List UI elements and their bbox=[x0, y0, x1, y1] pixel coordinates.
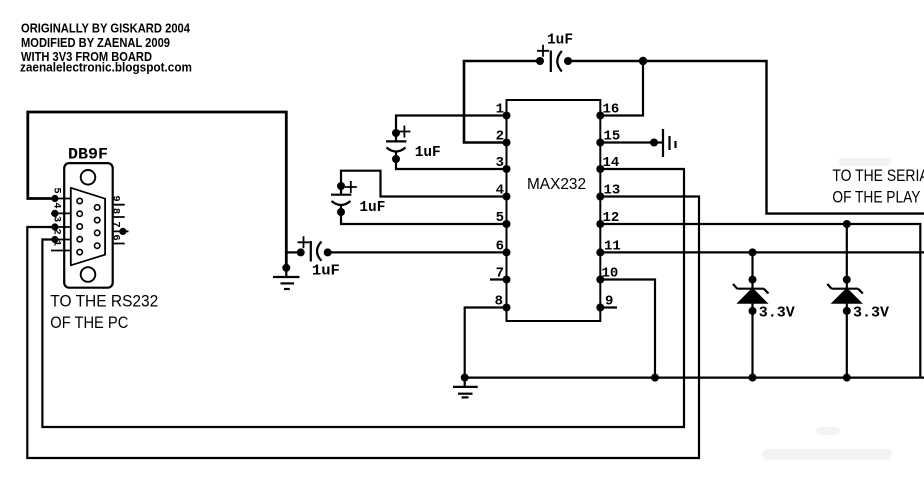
wire pin15 to ground bbox=[600, 141, 663, 143]
node ground pin10 bbox=[651, 374, 659, 382]
ground GND1 bbox=[273, 268, 300, 289]
capacitor C3 1uF (vertical) bbox=[331, 181, 357, 216]
wire C3 top to pin4 bbox=[341, 171, 507, 197]
svg-text:5: 5 bbox=[496, 210, 504, 226]
zener diode D2 3.3V bbox=[827, 220, 863, 378]
wire C4 to pin6 bbox=[328, 251, 507, 253]
pin dots right 16-9 bbox=[596, 112, 604, 312]
svg-text:TO THE RS232: TO THE RS232 bbox=[50, 292, 158, 311]
svg-text:zaenalelectronic.blogspot.com: zaenalelectronic.blogspot.com bbox=[20, 61, 192, 75]
capacitor C2 1uF (vertical) bbox=[386, 126, 410, 164]
svg-text:4: 4 bbox=[51, 202, 63, 208]
wire pin10 down to ground rail bbox=[600, 280, 655, 378]
pin digits DB9 left bbox=[51, 187, 63, 246]
svg-text:3.3V: 3.3V bbox=[853, 305, 889, 322]
svg-text:2: 2 bbox=[496, 129, 504, 145]
wire pin11 right bbox=[600, 251, 924, 253]
svg-text:3: 3 bbox=[51, 216, 63, 222]
svg-text:ORIGINALLY BY GISKARD 2004: ORIGINALLY BY GISKARD 2004 bbox=[21, 22, 190, 36]
svg-text:3: 3 bbox=[496, 155, 504, 171]
pin number labels bbox=[495, 102, 621, 310]
svg-text:5: 5 bbox=[51, 187, 63, 193]
svg-text:2: 2 bbox=[51, 228, 63, 234]
wire pin1 to C2 top bbox=[396, 116, 507, 134]
wire pin13 to DB9 pin3 bbox=[27, 197, 699, 459]
svg-text:1: 1 bbox=[51, 240, 63, 246]
connector J1 DB9F bbox=[51, 163, 129, 288]
svg-text:1uF: 1uF bbox=[547, 32, 573, 49]
wire C3 bottom to pin5 bbox=[341, 212, 507, 224]
capacitor C4 1uF (horizontal, to pin6) bbox=[286, 236, 331, 261]
node pin15 bbox=[650, 139, 658, 147]
svg-text:DB9F: DB9F bbox=[68, 146, 108, 164]
node D1 ground bbox=[749, 374, 757, 382]
svg-text:6: 6 bbox=[109, 234, 121, 240]
node top supply bbox=[639, 57, 647, 65]
label TO THE RS232 / OF THE PC bbox=[50, 292, 158, 333]
label TO THE SERIAL / OF THE PLAY bbox=[832, 167, 924, 207]
capacitor C1 1uF (top horizontal) bbox=[536, 45, 572, 72]
wire C2 bottom to pin3 bbox=[396, 159, 507, 169]
svg-text:OF THE PLAY: OF THE PLAY bbox=[832, 189, 920, 207]
ground GND2 bbox=[453, 378, 478, 398]
wire DB9 pin5 to ground/cap node bbox=[28, 112, 287, 268]
pin leads right bbox=[113, 205, 129, 244]
wire pin12 right and down bbox=[600, 224, 920, 378]
node at ground junction bbox=[282, 264, 290, 272]
pin stubs pin7 pin9 bbox=[490, 278, 507, 280]
svg-text:9: 9 bbox=[605, 294, 613, 310]
title text block bbox=[20, 22, 192, 75]
node ground left bbox=[461, 374, 469, 382]
svg-text:4: 4 bbox=[496, 183, 504, 199]
svg-text:MAX232: MAX232 bbox=[527, 176, 586, 193]
svg-text:8: 8 bbox=[109, 208, 121, 214]
svg-text:1: 1 bbox=[496, 102, 504, 118]
svg-text:3.3V: 3.3V bbox=[759, 305, 795, 322]
wire pin2 to C1 bbox=[464, 61, 540, 143]
wire C1 right to supply corner and serial line bbox=[568, 61, 924, 214]
pin leads left bbox=[51, 199, 71, 251]
ground GND3 (sideways) bbox=[663, 129, 676, 157]
svg-text:16: 16 bbox=[603, 102, 620, 118]
wire pin8 to ground bbox=[465, 308, 507, 378]
svg-text:MODIFIED BY ZAENAL 2009: MODIFIED BY ZAENAL 2009 bbox=[21, 36, 170, 50]
svg-text:9: 9 bbox=[109, 195, 121, 201]
svg-text:7: 7 bbox=[496, 266, 504, 282]
wire pin14 to DB9 pin2 bbox=[42, 169, 684, 427]
ground rail bbox=[465, 377, 924, 379]
wire node to pin16 bbox=[600, 61, 643, 116]
svg-text:1uF: 1uF bbox=[312, 263, 340, 280]
svg-text:1uF: 1uF bbox=[359, 199, 385, 216]
pin dots left 1-8 bbox=[503, 112, 511, 312]
svg-text:7: 7 bbox=[109, 221, 121, 227]
watermark smudges bbox=[762, 158, 892, 460]
pin digits DB9 right bbox=[109, 195, 121, 240]
svg-text:6: 6 bbox=[496, 238, 504, 254]
node D2 ground bbox=[843, 374, 851, 382]
zener diode D1 3.3V bbox=[733, 248, 769, 377]
svg-text:TO THE SERIAL: TO THE SERIAL bbox=[832, 167, 924, 185]
op IC U1 MAX232 body bbox=[507, 100, 601, 321]
svg-text:1uF: 1uF bbox=[415, 144, 441, 161]
svg-text:OF THE PC: OF THE PC bbox=[50, 313, 128, 332]
